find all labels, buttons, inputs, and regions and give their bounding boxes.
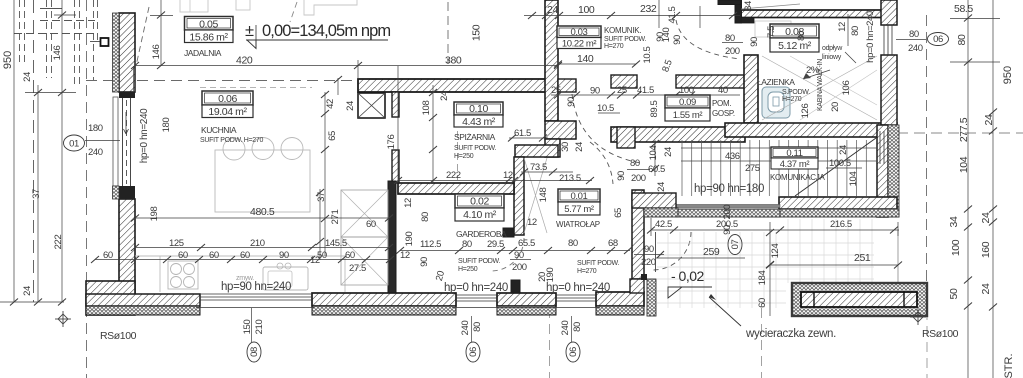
svg-text:34: 34 xyxy=(948,216,960,227)
door arc garderoba xyxy=(491,238,524,271)
svg-text:148: 148 xyxy=(538,188,549,203)
svg-text:24: 24 xyxy=(22,72,33,82)
insulation entry corner xyxy=(644,208,678,217)
svg-text:146: 146 xyxy=(52,46,63,61)
wall wiatrolap entry corner xyxy=(632,193,676,208)
svg-text:H=270: H=270 xyxy=(782,96,802,103)
top-left dashed grid verticals xyxy=(20,0,98,302)
svg-text:60: 60 xyxy=(103,250,113,261)
svg-text:KOMUNIK.: KOMUNIK. xyxy=(604,26,641,35)
svg-text:KUCHNIA: KUCHNIA xyxy=(201,125,237,135)
svg-text:124: 124 xyxy=(770,244,781,259)
svg-text:271: 271 xyxy=(330,210,341,225)
door arc wiatrolap entry xyxy=(653,232,691,270)
svg-text:60: 60 xyxy=(345,250,355,261)
svg-text:0.03: 0.03 xyxy=(571,27,588,38)
svg-text:24: 24 xyxy=(656,182,667,192)
svg-text:65: 65 xyxy=(327,131,338,141)
svg-text:RSø100: RSø100 xyxy=(100,330,137,342)
svg-text:60: 60 xyxy=(366,219,376,230)
vertical dim line x38 xyxy=(37,85,39,302)
svg-text:0.06: 0.06 xyxy=(218,93,237,105)
wall lazienka top xyxy=(741,10,884,18)
svg-text:90: 90 xyxy=(419,257,430,267)
marker divider 90/200 garderoba door xyxy=(510,259,531,261)
wall spizarnia+garderoba top band xyxy=(398,183,514,194)
stair dim line 436 xyxy=(681,147,877,149)
svg-text:zmyw.: zmyw. xyxy=(236,275,254,282)
window kitchen bottom xyxy=(200,293,312,295)
svg-text:90: 90 xyxy=(749,37,760,47)
svg-text:100.5: 100.5 xyxy=(829,158,851,169)
wall bottom-left corner block xyxy=(86,281,135,315)
wall stub spizarnia left top xyxy=(392,92,399,117)
wall bottom piece 3 with corner xyxy=(596,292,644,306)
wall right exterior above window xyxy=(881,0,897,25)
svg-text:90: 90 xyxy=(566,97,577,107)
svg-text:06: 06 xyxy=(568,347,579,357)
insulation komunikacja bottom xyxy=(755,209,899,217)
svg-text:240: 240 xyxy=(908,43,923,54)
svg-text:WIATROŁAP: WIATROŁAP xyxy=(556,220,600,229)
connector top right y15-22 xyxy=(950,18,1000,20)
insulation right exterior xyxy=(888,125,899,217)
svg-text:24: 24 xyxy=(983,114,995,125)
svg-text:10.22 m²: 10.22 m² xyxy=(562,39,597,50)
svg-text:4.37 m²: 4.37 m² xyxy=(780,159,810,170)
svg-text:4.10 m²: 4.10 m² xyxy=(463,209,497,221)
svg-text:80: 80 xyxy=(568,238,578,249)
svg-text:hp=0 hn=240: hp=0 hn=240 xyxy=(546,282,610,294)
dim line 24/100/232 top xyxy=(524,15,740,17)
vertical dim line x14 xyxy=(13,0,15,302)
svg-text:7.5: 7.5 xyxy=(766,26,777,38)
level symbol -0.02 xyxy=(668,287,682,298)
dim line left y15 xyxy=(54,14,76,16)
survey marker right xyxy=(910,309,926,325)
svg-text:259: 259 xyxy=(703,246,720,258)
wall right exterior below window xyxy=(881,55,897,125)
svg-text:ŁAZIENKA: ŁAZIENKA xyxy=(757,77,795,87)
svg-text:12: 12 xyxy=(527,217,537,228)
svg-text:73.5: 73.5 xyxy=(530,162,547,173)
svg-text:90: 90 xyxy=(279,250,289,261)
leader wycieraczka xyxy=(709,297,741,326)
window bottom 2 xyxy=(456,294,497,296)
axis vertical dashed x448 top xyxy=(447,2,449,64)
svg-text:12: 12 xyxy=(837,22,848,32)
svg-text:80: 80 xyxy=(572,322,583,332)
svg-text:60: 60 xyxy=(757,298,768,308)
svg-text:07: 07 xyxy=(730,240,741,250)
leader 2 percent xyxy=(803,70,830,79)
wall stub V1 at sill xyxy=(511,280,520,293)
right marker 80/240 divider xyxy=(896,39,926,41)
axis vertical dashed x926 xyxy=(926,15,928,310)
svg-text:68: 68 xyxy=(608,238,618,249)
small black square top-left xyxy=(101,38,109,46)
svg-text:216.5: 216.5 xyxy=(830,219,852,230)
short line x848 lazienka dims xyxy=(847,14,849,46)
svg-text:0.05: 0.05 xyxy=(199,19,218,31)
leader odplyw xyxy=(845,52,856,63)
kitchen sink xyxy=(263,267,308,290)
svg-text:24: 24 xyxy=(547,4,558,16)
kitchen counter xyxy=(135,256,345,292)
vertical dim line x338 xyxy=(337,78,339,95)
svg-text:80: 80 xyxy=(630,158,640,169)
svg-text:222: 222 xyxy=(53,235,64,250)
wall komunik bottom row stub2 xyxy=(611,75,637,88)
svg-text:KOMUNIKACJA: KOMUNIKACJA xyxy=(770,173,825,182)
svg-text:RSø100: RSø100 xyxy=(922,328,959,340)
svg-text:24: 24 xyxy=(980,212,992,223)
svg-text:SPIŻARNIA: SPIŻARNIA xyxy=(454,132,496,142)
svg-text:108: 108 xyxy=(421,101,432,116)
planter bottom right xyxy=(792,283,927,316)
svg-text:40: 40 xyxy=(718,85,728,96)
svg-text:100: 100 xyxy=(950,239,962,256)
door frame mark entry xyxy=(641,274,647,280)
svg-text:0.11: 0.11 xyxy=(786,148,802,159)
window bottom 3 wiatrolap xyxy=(556,294,596,296)
wall terrace top band left of komunikacja xyxy=(676,205,780,208)
svg-text:180: 180 xyxy=(88,123,103,134)
door arc komunik-stairs xyxy=(572,94,641,163)
svg-text:JADALNIA: JADALNIA xyxy=(184,48,222,58)
dim 222/12/213.5 xyxy=(398,180,592,182)
svg-text:60.5: 60.5 xyxy=(648,164,665,175)
svg-text:KABINA WALK-IN: KABINA WALK-IN xyxy=(817,59,824,111)
stair diagonal xyxy=(795,138,876,196)
svg-text:0.10: 0.10 xyxy=(469,103,488,115)
svg-text:50: 50 xyxy=(948,288,960,299)
vertical dim line right x993 xyxy=(992,0,994,378)
window right lazienka xyxy=(883,25,885,55)
svg-text:58.5: 58.5 xyxy=(954,3,973,15)
wall left column lower part xyxy=(119,199,135,294)
svg-text:06: 06 xyxy=(933,34,943,45)
svg-text:15.86 m²: 15.86 m² xyxy=(189,32,228,44)
svg-text:24: 24 xyxy=(980,283,992,294)
terrace axis dashed x927 bottom xyxy=(926,310,928,378)
terrace axis dashed x761 bottom xyxy=(761,308,763,378)
jadalnia window diagonal dashed xyxy=(136,7,149,66)
svg-text:213.5: 213.5 xyxy=(559,173,581,184)
dim 124/184/60 vertical x770 xyxy=(769,222,771,316)
wall pomgosp/lazienka vertical xyxy=(744,55,758,123)
svg-text:126: 126 xyxy=(800,104,811,119)
svg-text:30: 30 xyxy=(560,142,571,152)
kitchen hob xyxy=(168,261,198,289)
svg-text:24: 24 xyxy=(439,91,450,101)
svg-text:90: 90 xyxy=(644,244,654,255)
wall corner above lazienka xyxy=(735,0,742,23)
svg-text:240: 240 xyxy=(460,321,471,336)
stair treads xyxy=(682,140,866,196)
svg-text:200: 200 xyxy=(512,262,527,273)
svg-text:37: 37 xyxy=(31,189,42,199)
svg-text:odpływ: odpływ xyxy=(822,45,843,52)
terrace axis dashed x549 bottom xyxy=(549,308,551,378)
wall stub spizarnia left bottom xyxy=(392,150,399,183)
room 0.06 kuchnia xyxy=(202,91,253,118)
svg-text:STR.: STR. xyxy=(1003,353,1015,378)
svg-text:25: 25 xyxy=(551,85,561,96)
svg-text:06: 06 xyxy=(468,347,479,357)
svg-text:SUFIT PODW. H=270: SUFIT PODW. H=270 xyxy=(200,137,263,144)
wall lazienka bottom xyxy=(725,123,897,137)
svg-text:65.5: 65.5 xyxy=(518,238,535,249)
dim 61.5 xyxy=(509,137,548,139)
window left wall glazing xyxy=(123,98,131,186)
wall V1 garderoba/wiatrolap xyxy=(514,157,524,235)
svg-text:POM.: POM. xyxy=(712,99,731,108)
svg-text:240: 240 xyxy=(88,147,103,158)
svg-text:104: 104 xyxy=(648,146,659,161)
svg-text:190: 190 xyxy=(404,232,415,247)
dim line 420/380 xyxy=(135,65,558,67)
svg-text:240: 240 xyxy=(560,321,571,336)
wall wiatrolap right vertical xyxy=(632,190,644,279)
svg-text:SUFIT PODW.: SUFIT PODW. xyxy=(454,145,496,152)
wall block step komunik xyxy=(545,121,576,139)
svg-text:80: 80 xyxy=(725,33,735,44)
door arc wiatrolap inner X xyxy=(524,158,547,233)
wall connector wiatrolap top-left xyxy=(545,139,560,157)
svg-text:184: 184 xyxy=(757,271,768,286)
terrace right edge line xyxy=(897,230,899,283)
room 0.02 garderoba xyxy=(455,194,504,221)
vertical line x133 xyxy=(133,66,135,92)
svg-text:210: 210 xyxy=(250,238,265,249)
svg-text:251: 251 xyxy=(854,252,871,264)
room 0.10 spizarnia xyxy=(454,102,503,127)
axis A horizontal dashed xyxy=(86,80,360,82)
axis horizontal dashed right y133 xyxy=(897,132,1023,134)
svg-text:0.02: 0.02 xyxy=(470,196,489,208)
vertical dim line x398 xyxy=(397,66,399,183)
vertical dim line x325 xyxy=(324,92,326,256)
insulation strip left column xyxy=(113,13,120,92)
vertical dim line x62 xyxy=(61,0,63,302)
light gray dashed kitchen ceiling line xyxy=(200,87,312,89)
svg-text:- 0,02: - 0,02 xyxy=(671,268,705,284)
svg-text:65: 65 xyxy=(613,208,624,218)
bottom window marker lines xyxy=(251,308,253,342)
window right komunikacja xyxy=(879,131,881,164)
svg-text:80: 80 xyxy=(420,212,431,222)
svg-text:198: 198 xyxy=(149,207,160,222)
svg-text:210: 210 xyxy=(254,320,265,335)
svg-text:08: 08 xyxy=(249,347,260,357)
dim line 140 komunik xyxy=(558,63,636,65)
axis vertical dashed x86 xyxy=(86,0,88,378)
wall left column exterior xyxy=(119,13,135,92)
svg-text:25: 25 xyxy=(617,85,627,96)
svg-text:146: 146 xyxy=(151,45,162,60)
svg-text:H=270: H=270 xyxy=(577,268,597,275)
svg-text:H=270: H=270 xyxy=(604,43,624,50)
svg-text:10.5: 10.5 xyxy=(642,46,653,63)
svg-text:90: 90 xyxy=(514,250,524,261)
svg-text:277.5: 277.5 xyxy=(958,117,970,142)
svg-text:0.01: 0.01 xyxy=(571,191,588,202)
column crossed box komunik xyxy=(358,93,385,118)
svg-text:H=250: H=250 xyxy=(454,153,474,160)
dim row komunik doors y95 xyxy=(551,94,740,96)
marker divider 80/200 komunik-stairs door xyxy=(627,169,650,171)
wall komunik top xyxy=(718,0,741,5)
svg-text:SUFIT PODW.: SUFIT PODW. xyxy=(458,258,500,265)
wall spizarnia/komunik vertical xyxy=(545,0,558,121)
room 0.09 pom gosp xyxy=(665,95,710,121)
wall right exterior komunikacja xyxy=(877,125,888,217)
svg-text:90: 90 xyxy=(672,35,683,45)
dim 125/210/145.5 xyxy=(135,247,390,249)
shower slope lines xyxy=(762,56,877,120)
dim line left y302 xyxy=(0,301,64,303)
svg-text:104: 104 xyxy=(958,156,970,173)
svg-text:104: 104 xyxy=(848,172,859,187)
svg-text:50: 50 xyxy=(317,250,327,261)
dim 10.5 komunik small xyxy=(598,112,620,114)
svg-text:420: 420 xyxy=(236,55,253,67)
svg-text:220: 220 xyxy=(641,257,656,268)
svg-text:222: 222 xyxy=(446,170,461,181)
room 0.03 komunik xyxy=(557,26,601,49)
wall bottom band left (86-200) xyxy=(86,294,200,306)
window left wall caps xyxy=(119,92,135,98)
svg-text:140: 140 xyxy=(577,53,594,65)
svg-text:90: 90 xyxy=(616,171,627,181)
vertical dim line right x968 xyxy=(967,0,969,378)
dim 259 entry line xyxy=(656,257,745,259)
svg-text:480.5: 480.5 xyxy=(250,206,275,218)
svg-text:100: 100 xyxy=(578,4,595,16)
svg-text:S.PODW.: S.PODW. xyxy=(782,89,810,96)
wall pomgosp top right xyxy=(676,75,745,88)
wall kitchen/garderoba vertical xyxy=(388,181,396,294)
svg-text:60: 60 xyxy=(209,250,219,261)
svg-text:125: 125 xyxy=(169,238,184,249)
vertical dim line x320 xyxy=(319,189,321,260)
svg-text:SUFIT PODW.: SUFIT PODW. xyxy=(577,260,619,267)
vertical dim line x433 xyxy=(432,85,434,183)
svg-text:liniowy: liniowy xyxy=(822,54,842,61)
jadalnia furniture top edge xyxy=(180,0,208,12)
svg-text:145.5: 145.5 xyxy=(325,238,347,249)
dim 42.5/200.5/216.5 terrace xyxy=(651,229,899,231)
svg-text:GOSP.: GOSP. xyxy=(712,109,735,118)
svg-text:200: 200 xyxy=(725,46,740,57)
svg-text:12: 12 xyxy=(503,170,513,181)
svg-text:24: 24 xyxy=(345,101,356,111)
svg-text:34: 34 xyxy=(743,1,754,11)
dim 60 row kitchen xyxy=(95,259,390,261)
terrace paving grid xyxy=(657,219,874,308)
svg-text:41.5: 41.5 xyxy=(667,6,678,23)
kitchen tall cabinets X xyxy=(341,190,388,237)
wall wiatrolap top horizontal A xyxy=(515,145,558,157)
wall bottom mid (garderoba sill) xyxy=(312,293,456,306)
svg-text:0.09: 0.09 xyxy=(679,97,696,108)
svg-text:150: 150 xyxy=(471,24,483,41)
svg-text:436: 436 xyxy=(725,151,740,162)
dim 73.5 xyxy=(521,171,573,173)
svg-text:176: 176 xyxy=(386,135,397,150)
svg-text:hp=0 hn=240: hp=0 hn=240 xyxy=(444,282,508,294)
stair dim line 275 xyxy=(681,160,877,162)
svg-text:37: 37 xyxy=(316,192,327,202)
svg-text:232: 232 xyxy=(640,3,657,15)
svg-text:hp=90 hn=240: hp=90 hn=240 xyxy=(221,281,291,293)
svg-text:380: 380 xyxy=(445,55,462,67)
svg-text:950: 950 xyxy=(2,51,14,69)
svg-text:61.5: 61.5 xyxy=(514,128,531,139)
insulation bottom-right corner wrap xyxy=(647,279,656,316)
svg-text:±: ± xyxy=(245,22,254,40)
svg-text:29.5: 29.5 xyxy=(487,239,504,250)
svg-text:42: 42 xyxy=(325,99,336,109)
dim line left y92 xyxy=(25,92,76,94)
svg-text:4.43 m²: 4.43 m² xyxy=(462,116,496,128)
svg-text:140: 140 xyxy=(661,28,672,43)
svg-text:27.5: 27.5 xyxy=(349,263,366,274)
svg-text:60: 60 xyxy=(178,250,188,261)
svg-text:90: 90 xyxy=(590,86,600,97)
top-left short horizontal dashed dim rows xyxy=(14,9,95,34)
wall block pomgosp bottom-left xyxy=(617,127,635,148)
svg-text:106: 106 xyxy=(841,81,852,96)
svg-text:190: 190 xyxy=(545,268,556,283)
svg-text:20: 20 xyxy=(830,102,841,112)
svg-text:1.55 m²: 1.55 m² xyxy=(673,110,703,121)
svg-text:hp=90 hn=180: hp=90 hn=180 xyxy=(694,183,764,195)
wall komunik bottom row stub1 xyxy=(558,79,576,92)
svg-text:950: 950 xyxy=(1002,66,1014,84)
svg-text:80: 80 xyxy=(796,31,807,41)
svg-text:hp=0 hn=240: hp=0 hn=240 xyxy=(865,11,876,63)
svg-text:12: 12 xyxy=(400,250,410,261)
wall komunikacja bottom band xyxy=(779,197,897,209)
insulation bottom band left xyxy=(86,306,200,315)
wall top horizontal (420/380 wall) xyxy=(358,79,558,92)
room 0.05 jadalnia label boxes xyxy=(185,17,234,43)
dim 100.5 komunikacja xyxy=(826,167,862,169)
dining table xyxy=(215,150,310,212)
svg-text:180: 180 xyxy=(161,118,172,133)
svg-text:12: 12 xyxy=(403,198,414,208)
svg-text:80: 80 xyxy=(462,239,472,250)
dining chairs top xyxy=(223,138,245,160)
svg-text:01: 01 xyxy=(69,139,79,150)
svg-text:0,00=134,05m npm: 0,00=134,05m npm xyxy=(262,22,390,40)
svg-text:wycieraczka zewn.: wycieraczka zewn. xyxy=(745,328,836,340)
vertical dim line x161 xyxy=(160,0,162,66)
svg-text:200: 200 xyxy=(631,173,646,184)
vertical dim line x655 pomgosp xyxy=(654,140,656,176)
svg-text:160: 160 xyxy=(980,241,992,258)
dim 480.5 xyxy=(135,217,389,219)
room 0.01 wiatrolap xyxy=(558,189,600,215)
wall bottom piece 2 xyxy=(497,293,556,306)
dim 251 line xyxy=(770,264,898,266)
svg-text:19.04 m²: 19.04 m² xyxy=(208,106,247,118)
svg-text:200: 200 xyxy=(722,205,733,220)
svg-text:200.5: 200.5 xyxy=(716,219,738,230)
door leaf wiatrolap entry xyxy=(655,232,657,272)
